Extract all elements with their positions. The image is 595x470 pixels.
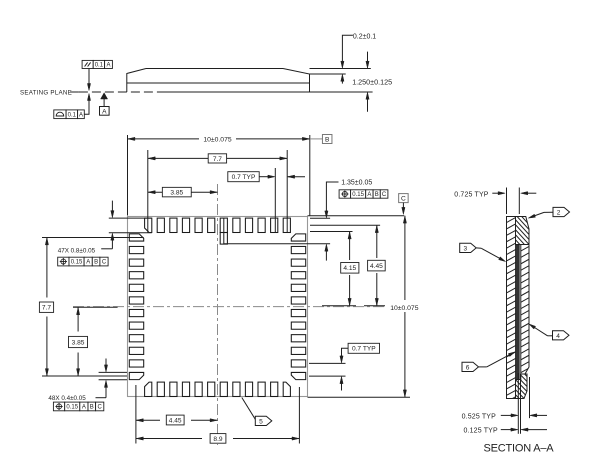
dimension 47X 0.8±0.05 leader arrows [101, 201, 114, 249]
title SECTION A-A [484, 443, 555, 455]
terminal pad bottom row 3 [170, 382, 177, 396]
svg-text:C: C [98, 405, 103, 411]
svg-text:C: C [401, 196, 406, 203]
profile frame leader arrow up to seating plane [84, 94, 90, 115]
terminal pad bottom row 8 [233, 382, 240, 396]
svg-text:48X 0.4±0.05: 48X 0.4±0.05 [48, 395, 86, 402]
extension line center line right segments [322, 305, 385, 307]
svg-text:0.2±0.1: 0.2±0.1 [353, 33, 376, 40]
svg-text:47X 0.8±0.05: 47X 0.8±0.05 [58, 248, 96, 255]
dimension 7.7 (left) [39, 237, 53, 376]
terminal pad top row 12 [283, 218, 290, 232]
terminal pad right column 7 [291, 309, 305, 316]
dimension 8.9 (bottom) [136, 434, 300, 444]
svg-text:C: C [102, 260, 107, 266]
terminal pad right column 6 [291, 297, 305, 304]
extension line pin1 center (top) [147, 150, 149, 233]
svg-text:0.15: 0.15 [66, 405, 78, 411]
extension line left pin12 bottom edge [99, 379, 127, 381]
position feature control frame 0.15 A B C (lower left) [53, 402, 103, 411]
terminal pad top row 1 [145, 218, 152, 232]
svg-text:4.45: 4.45 [169, 417, 182, 424]
label 48X 0.4±0.05 [48, 395, 86, 402]
balloon 2 with leader [528, 207, 569, 218]
svg-text:B: B [90, 405, 94, 411]
svg-text:A: A [367, 192, 371, 198]
terminal pad right column 4 [291, 272, 305, 279]
terminal pad top row 10 [258, 218, 265, 232]
extension line right column pad center (bottom) [298, 387, 300, 444]
svg-text:SEATING PLANE: SEATING PLANE [20, 89, 72, 96]
terminal pad right column 10 [291, 347, 305, 354]
terminal pad bottom row 6 [208, 382, 215, 396]
terminal pad left column 6 [129, 297, 143, 304]
label SEATING PLANE [20, 89, 72, 96]
terminal pad left column 2 [129, 246, 143, 253]
parallelism feature control frame 0.1 A [82, 60, 112, 68]
svg-text:10±0.075: 10±0.075 [390, 305, 419, 312]
extension line mold top right [310, 68, 371, 70]
section mold body (left bar, hatched) [506, 204, 517, 409]
svg-text:SECTION A–A: SECTION A–A [484, 443, 555, 455]
dimension 1.250±0.125 [352, 52, 392, 112]
extension line package bottom edge (right) [308, 396, 411, 398]
extension line left pin12 top edge [99, 371, 127, 373]
terminal pad bottom row 7 [220, 382, 227, 396]
parallelism leader arrow to seating plane [87, 69, 90, 91]
dimension 0.125 TYP [464, 428, 548, 435]
dimension 4.15 (right) [341, 232, 359, 306]
svg-text:4.45: 4.45 [370, 263, 383, 270]
dimension 3.85 (top) [148, 187, 218, 197]
svg-text:7.7: 7.7 [213, 156, 222, 163]
terminal pad left column 10 [129, 347, 143, 354]
terminal pad left column 9 [129, 335, 143, 342]
side view lead frame mid line [127, 82, 310, 84]
profile feature control frame 0.1 A (seating plane flatness) [54, 110, 84, 119]
extension line center line left segment [73, 306, 118, 308]
svg-text:0.725 TYP: 0.725 TYP [454, 192, 488, 199]
datum C box and arrow [399, 194, 409, 215]
terminal pad left column 8 [129, 322, 143, 329]
extension line pin1 top edge (left) [109, 217, 152, 219]
svg-text:3.85: 3.85 [72, 339, 85, 346]
terminal pad bottom row 11 [271, 382, 278, 396]
svg-text:A: A [86, 260, 90, 266]
section extension lines top [507, 188, 520, 215]
terminal pad top row 5 [195, 218, 202, 232]
svg-text:5: 5 [259, 418, 263, 425]
extension line package right edge to datum B [309, 135, 311, 216]
svg-text:3.85: 3.85 [170, 189, 183, 196]
section terminal bottom piece (hatched) [515, 349, 528, 432]
svg-text:0.7 TYP: 0.7 TYP [352, 346, 376, 353]
svg-text:B: B [375, 192, 379, 198]
terminal pad bottom row 1 [145, 382, 152, 396]
extension line top pin inner edge row (right) [310, 231, 353, 233]
section terminal top piece (hatched) [515, 189, 530, 285]
svg-text:3: 3 [463, 245, 467, 252]
section hatch pattern defs [0, 0, 1, 1]
package body outline (top view) [128, 217, 308, 397]
extension line right pin11 center [309, 362, 346, 364]
extension line right pin12 center [309, 375, 346, 377]
terminal pad right column 8 [291, 322, 305, 329]
dimension 3.85 (left) [69, 307, 88, 376]
terminal pad bottom row 9 [245, 382, 252, 396]
svg-text:2: 2 [557, 210, 561, 217]
svg-text:C: C [382, 192, 387, 198]
svg-text:6: 6 [466, 364, 470, 371]
svg-text:0.125 TYP: 0.125 TYP [464, 428, 498, 435]
label 47X 0.8±0.05 [58, 248, 96, 255]
balloon 6 with leader [462, 352, 515, 372]
extension line package left edge [127, 135, 129, 216]
dimension 0.525 TYP [462, 413, 547, 420]
terminal pad right column 9 [291, 335, 305, 342]
section extension lines bottom [518, 373, 529, 434]
terminal pad top row 4 [182, 218, 189, 232]
svg-text:0.525 TYP: 0.525 TYP [462, 413, 496, 420]
dimension 48X 0.4±0.05 leader arrows [96, 359, 108, 398]
terminal pad left column 12 [129, 372, 143, 379]
svg-text:7.7: 7.7 [42, 305, 51, 312]
svg-text:A: A [79, 112, 83, 118]
dimension 10±0.075 (top) [128, 137, 310, 144]
dimension 0.725 TYP [454, 192, 536, 199]
seating plane dashed datum line [70, 91, 160, 93]
extension line left column pad center (bottom) [135, 385, 137, 444]
extension line long pin bottom (right) [224, 243, 330, 245]
svg-text:4: 4 [556, 333, 560, 340]
svg-text:B: B [94, 260, 98, 266]
svg-text:0.15: 0.15 [71, 260, 83, 266]
dimension 0.7 TYP (right) [340, 343, 380, 390]
terminal pad left column 7 [129, 309, 143, 316]
dimension 4.45 (right) [368, 225, 386, 306]
terminal pad top row 3 [170, 218, 177, 232]
position feature control frame 0.15 A B C (upper left) [58, 257, 108, 266]
svg-text:4.15: 4.15 [343, 265, 356, 272]
svg-text:A: A [106, 63, 110, 69]
balloon 4 with leader [529, 324, 569, 340]
extension line pin1 top edge (right) [310, 217, 330, 219]
terminal pad bottom row 10 [258, 382, 265, 396]
dimension 7.7 (top) [148, 154, 287, 163]
svg-text:10±0.075: 10±0.075 [203, 137, 232, 144]
dimension 0.2±0.1 with leader [341, 33, 377, 83]
extension line top pin center row (right) [310, 224, 380, 226]
horizontal center line [73, 306, 385, 308]
svg-text:1.35±0.05: 1.35±0.05 [341, 180, 372, 187]
terminal pad bottom row 12 [283, 382, 290, 396]
position feature control frame 0.15 A B C (right) [339, 190, 388, 198]
terminal pad right column 5 [291, 284, 305, 291]
terminal pad top row 7 [220, 218, 227, 232]
terminal pad top row 9 [245, 218, 252, 232]
balloon 3 with leader [460, 243, 506, 261]
extension line left pin12 center [42, 375, 127, 377]
balloon 5 with leader to terminal [242, 398, 272, 426]
dimension 4.45 (bottom) [136, 415, 218, 425]
terminal pad top row 11 [271, 218, 278, 232]
terminal pad left column 1 [129, 234, 143, 241]
svg-text:1.250±0.125: 1.250±0.125 [352, 77, 392, 86]
side view package body outline [127, 69, 310, 93]
section right bar (hatched) [520, 233, 530, 386]
dimension 0.7 TYP (top) [228, 172, 305, 182]
terminal pad left column 4 [129, 272, 143, 279]
svg-text:0.7 TYP: 0.7 TYP [232, 174, 256, 181]
terminal pad right column 12 [291, 372, 305, 379]
svg-text:A: A [82, 405, 86, 411]
extension line top edge to datum C [308, 215, 405, 217]
terminal pad right column 3 [291, 259, 305, 266]
svg-text:0.15: 0.15 [352, 192, 364, 198]
vertical center line [217, 184, 219, 445]
svg-text:8.9: 8.9 [213, 436, 222, 443]
terminal pad bottom row 5 [195, 382, 202, 396]
dimension 10±0.075 (right) [390, 216, 419, 398]
terminal pad top row 2 [157, 218, 164, 232]
terminal pad left column 5 [129, 284, 143, 291]
terminal pad top row 8 [233, 218, 240, 232]
datum B box [310, 135, 332, 144]
extension line pin1 bottom edge (left) [109, 232, 152, 234]
svg-text:A: A [102, 108, 107, 115]
svg-text:0.1: 0.1 [95, 63, 104, 69]
terminal pad top row 7 extension (long pin) [220, 218, 227, 244]
extension line left pin1 center [42, 236, 144, 238]
terminal pad bottom row 2 [157, 382, 164, 396]
dimension 1.35±0.05 with leader [325, 180, 373, 261]
datum A symbol (triangle and box) [100, 93, 110, 116]
extension line pin11 center (top) [274, 168, 276, 233]
extension line body bottom right [310, 91, 373, 93]
terminal pad right column 11 [291, 360, 305, 367]
terminal pad right column 1 [291, 234, 305, 241]
svg-text:0.1: 0.1 [68, 112, 77, 118]
terminal pad right column 2 [291, 246, 305, 253]
terminal pad left column 11 [129, 360, 143, 367]
extension line body edge top [310, 73, 346, 75]
svg-text:B: B [325, 136, 330, 143]
section lead frame strip (dark) [516, 235, 520, 380]
extension line pin12 center (top) [286, 150, 288, 233]
terminal pad left column 3 [129, 259, 143, 266]
terminal pad top row 6 [208, 218, 215, 232]
terminal pad bottom row 4 [182, 382, 189, 396]
